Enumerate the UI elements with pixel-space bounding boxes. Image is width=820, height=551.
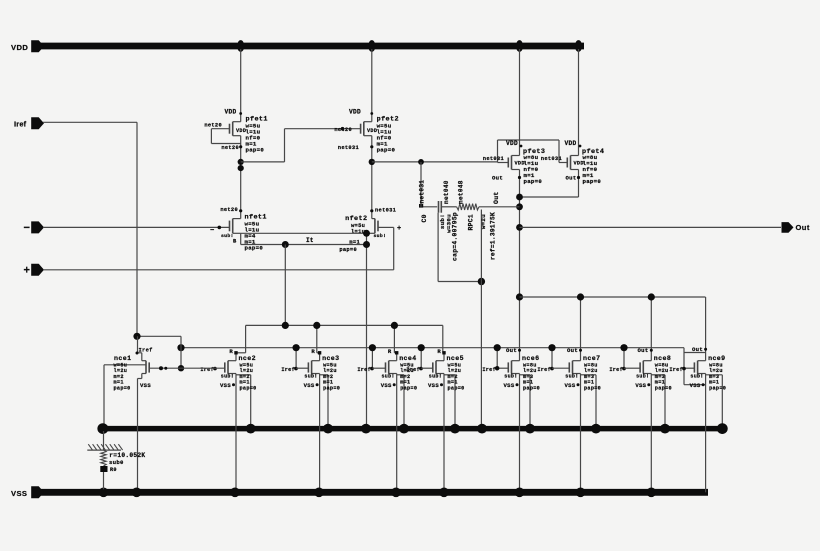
svg-text:l=1u: l=1u bbox=[351, 229, 365, 235]
svg-text:−: − bbox=[24, 222, 31, 234]
svg-text:sub!: sub! bbox=[374, 233, 387, 239]
svg-text:pap=0: pap=0 bbox=[240, 385, 257, 391]
svg-text:C0: C0 bbox=[421, 214, 428, 222]
svg-text:VSS: VSS bbox=[428, 382, 439, 389]
svg-text:Iref: Iref bbox=[14, 120, 27, 129]
svg-text:nce3: nce3 bbox=[322, 355, 339, 362]
svg-text:VDD: VDD bbox=[224, 108, 236, 115]
svg-text:pap=0: pap=0 bbox=[246, 146, 265, 153]
svg-text:sub!: sub! bbox=[304, 373, 317, 379]
svg-text:net20: net20 bbox=[204, 122, 222, 128]
svg-text:sub!: sub! bbox=[221, 373, 234, 379]
svg-text:net031: net031 bbox=[541, 156, 562, 162]
svg-text:Out: Out bbox=[492, 175, 503, 182]
svg-text:VSS: VSS bbox=[565, 382, 576, 389]
svg-text:pap=0: pap=0 bbox=[709, 385, 726, 391]
svg-text:sub!: sub! bbox=[429, 373, 442, 379]
svg-text:w=2u: w=2u bbox=[480, 214, 487, 229]
svg-text:net040: net040 bbox=[443, 180, 450, 204]
svg-text:Iref: Iref bbox=[537, 367, 551, 373]
svg-text:VSS: VSS bbox=[304, 382, 315, 389]
svg-text:B: B bbox=[233, 239, 237, 245]
svg-text:net031: net031 bbox=[375, 208, 396, 214]
svg-text:net031: net031 bbox=[418, 180, 425, 204]
svg-text:nce4: nce4 bbox=[399, 355, 416, 362]
svg-text:nce7: nce7 bbox=[583, 355, 600, 362]
svg-text:pap=0: pap=0 bbox=[523, 385, 540, 391]
svg-text:nce1: nce1 bbox=[114, 355, 131, 362]
svg-text:pap=0: pap=0 bbox=[400, 385, 417, 391]
svg-text:R: R bbox=[229, 348, 233, 355]
svg-text:sub!: sub! bbox=[636, 373, 649, 379]
svg-text:net20: net20 bbox=[220, 207, 238, 213]
svg-text:It: It bbox=[306, 237, 314, 244]
svg-text:sub0: sub0 bbox=[109, 459, 124, 466]
svg-text:pap=0: pap=0 bbox=[245, 245, 264, 252]
svg-text:pap=0: pap=0 bbox=[584, 385, 601, 391]
svg-text:nfet2: nfet2 bbox=[345, 215, 367, 223]
svg-text:+: + bbox=[397, 225, 402, 233]
svg-text:VDD: VDD bbox=[349, 108, 361, 115]
svg-text:VSS: VSS bbox=[504, 382, 515, 389]
svg-text:R0: R0 bbox=[110, 467, 117, 473]
svg-text:Iref: Iref bbox=[609, 367, 623, 373]
svg-text:sub!: sub! bbox=[381, 373, 394, 379]
svg-text:RPC1: RPC1 bbox=[468, 214, 475, 231]
svg-text:pap=0: pap=0 bbox=[377, 146, 396, 153]
svg-text:Out: Out bbox=[567, 347, 578, 354]
svg-text:VDD: VDD bbox=[564, 140, 576, 147]
svg-text:nce6: nce6 bbox=[522, 355, 539, 362]
svg-text:VSS: VSS bbox=[381, 382, 392, 389]
svg-text:VSS: VSS bbox=[11, 489, 27, 498]
svg-text:sub!: sub! bbox=[690, 373, 703, 379]
svg-text:Out: Out bbox=[506, 347, 517, 354]
svg-text:pap=0: pap=0 bbox=[323, 385, 340, 391]
svg-text:cap=4.00795p: cap=4.00795p bbox=[452, 212, 459, 261]
svg-text:net031: net031 bbox=[338, 145, 359, 151]
svg-text:ref=1.39175K: ref=1.39175K bbox=[490, 212, 497, 260]
svg-text:Out: Out bbox=[566, 175, 577, 182]
svg-text:VDD: VDD bbox=[11, 43, 28, 52]
svg-text:Out: Out bbox=[638, 347, 649, 354]
svg-text:pap=0: pap=0 bbox=[339, 247, 357, 253]
svg-text:pap=0: pap=0 bbox=[583, 178, 602, 185]
svg-text:sub!: sub! bbox=[504, 373, 517, 379]
svg-text:R: R bbox=[437, 348, 441, 355]
svg-text:sub!: sub! bbox=[221, 233, 234, 239]
svg-text:Iref: Iref bbox=[281, 367, 295, 373]
svg-text:nce8: nce8 bbox=[654, 355, 671, 362]
svg-text:Out: Out bbox=[692, 346, 703, 353]
svg-text:+: + bbox=[24, 265, 31, 277]
svg-text:VDD: VDD bbox=[506, 140, 518, 147]
svg-text:net048: net048 bbox=[457, 180, 464, 204]
svg-text:Iref: Iref bbox=[406, 367, 420, 373]
svg-text:pap=0: pap=0 bbox=[448, 385, 465, 391]
svg-text:Out: Out bbox=[796, 223, 810, 232]
svg-text:Iref: Iref bbox=[482, 367, 496, 373]
svg-text:Out: Out bbox=[493, 191, 500, 204]
svg-text:pap=0: pap=0 bbox=[655, 385, 672, 391]
svg-text:nce5: nce5 bbox=[447, 355, 464, 362]
svg-text:nce2: nce2 bbox=[239, 355, 256, 362]
svg-text:VSS: VSS bbox=[690, 382, 701, 389]
svg-text:sub!: sub! bbox=[565, 373, 578, 379]
svg-text:VSS: VSS bbox=[635, 382, 646, 389]
svg-text:R: R bbox=[311, 348, 315, 355]
svg-text:pap=0: pap=0 bbox=[524, 178, 543, 185]
svg-text:net031: net031 bbox=[483, 156, 504, 162]
svg-text:VSS: VSS bbox=[140, 382, 151, 389]
svg-text:pap=0: pap=0 bbox=[114, 385, 131, 391]
svg-text:R: R bbox=[388, 348, 392, 355]
svg-text:net20: net20 bbox=[221, 145, 239, 151]
svg-text:nce9: nce9 bbox=[708, 355, 725, 362]
svg-text:Iref: Iref bbox=[357, 367, 371, 373]
svg-text:Iref: Iref bbox=[139, 348, 153, 354]
svg-text:VSS: VSS bbox=[220, 382, 231, 389]
svg-text:−: − bbox=[210, 227, 215, 235]
svg-text:r=10.052K: r=10.052K bbox=[109, 452, 145, 459]
svg-text:Iref: Iref bbox=[669, 367, 683, 373]
